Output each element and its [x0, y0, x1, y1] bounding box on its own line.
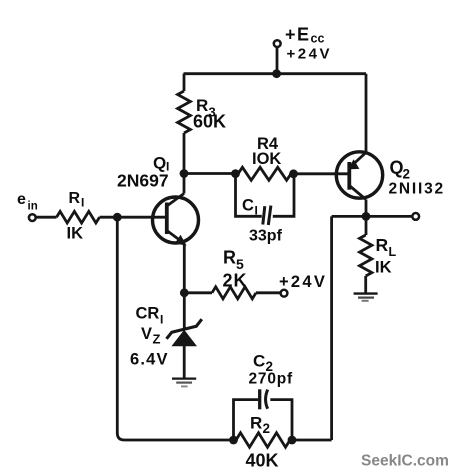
svg-text:SeekIC.com: SeekIC.com [361, 453, 449, 470]
svg-text:Z: Z [153, 332, 161, 347]
svg-text:2NII32: 2NII32 [389, 181, 445, 198]
svg-text:e: e [17, 191, 26, 208]
svg-text:IK: IK [67, 225, 84, 243]
svg-text:R: R [223, 248, 236, 268]
svg-text:IOK: IOK [252, 150, 281, 168]
svg-text:40K: 40K [246, 451, 279, 471]
svg-text:+E: +E [285, 25, 311, 45]
svg-text:+24V: +24V [287, 46, 332, 63]
svg-text:R: R [376, 235, 389, 255]
svg-text:+24V: +24V [279, 273, 327, 291]
svg-text:C: C [253, 352, 265, 371]
svg-text:IK: IK [375, 259, 392, 277]
svg-text:R: R [250, 414, 262, 433]
svg-text:in: in [28, 201, 38, 213]
svg-text:I: I [160, 313, 163, 327]
svg-text:I: I [255, 204, 258, 218]
svg-text:C: C [242, 197, 254, 215]
svg-text:CR: CR [136, 305, 160, 323]
svg-text:L: L [389, 245, 397, 259]
svg-text:60K: 60K [193, 112, 226, 132]
svg-text:2K: 2K [223, 271, 248, 291]
svg-text:270pf: 270pf [249, 371, 294, 388]
svg-text:cc: cc [311, 32, 325, 46]
svg-text:V: V [141, 325, 152, 343]
svg-text:I: I [81, 196, 84, 210]
svg-text:2: 2 [263, 421, 271, 436]
svg-text:2N697: 2N697 [117, 170, 169, 190]
svg-text:33pf: 33pf [249, 228, 283, 245]
svg-text:2: 2 [403, 167, 411, 182]
svg-text:R: R [69, 190, 81, 207]
svg-text:Q: Q [390, 158, 404, 178]
svg-text:6.4V: 6.4V [130, 351, 169, 369]
